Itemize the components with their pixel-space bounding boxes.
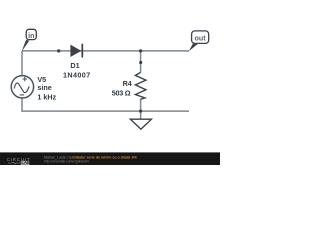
wire: in anchor down to V5 top — [21, 51, 23, 76]
voltage source V5 — [11, 76, 33, 98]
svg-text:503 Ω: 503 Ω — [112, 89, 131, 98]
wire: R4 column top lead — [140, 51, 142, 73]
footer bar — [0, 152, 220, 165]
node: junction dot bottom of R4 column — [139, 110, 142, 113]
wire: R4 column bottom lead — [140, 99, 142, 111]
svg-text:LAB: LAB — [21, 160, 30, 165]
node: junction dot at diode anode — [57, 49, 60, 52]
svg-text:1N4007: 1N4007 — [63, 71, 90, 80]
resistor R4 zigzag — [135, 72, 146, 99]
svg-text:D1: D1 — [70, 61, 79, 70]
ground — [130, 119, 151, 129]
svg-text:sine: sine — [37, 83, 51, 92]
wire: ground stub — [140, 111, 142, 119]
svg-text:R4: R4 — [123, 79, 132, 88]
diode D1 — [70, 44, 82, 58]
svg-text:1 kHz: 1 kHz — [37, 93, 56, 102]
wire: top net from in anchor to out anchor — [22, 50, 189, 52]
node: junction dot top of R4 column — [139, 49, 142, 52]
svg-text:out: out — [195, 33, 207, 42]
node: R4 top terminal dot — [139, 61, 142, 64]
svg-text:http://circuitlab.com/c/gnbdu6: http://circuitlab.com/c/gnbdu64 — [44, 159, 89, 163]
in flag — [22, 29, 37, 51]
out flag — [189, 31, 209, 51]
wire: V5 bottom down and right along bottom net — [22, 98, 189, 111]
svg-text:in: in — [28, 31, 34, 40]
